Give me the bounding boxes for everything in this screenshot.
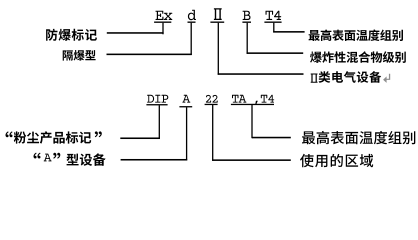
- leader vertical from A: [186, 107, 187, 160]
- leader vertical from 22: [212, 105, 213, 161]
- label closing quote of 粉尘产品标记: [95, 131, 102, 137]
- underline under 22: [205, 104, 218, 105]
- leader line to 爆炸性混合物级别: [247, 52, 304, 54]
- label 最高表面温度组别 bottom: [302, 131, 415, 144]
- leader vertical from B: [247, 23, 248, 54]
- underline under DIP: [146, 104, 167, 105]
- leader line to 隔爆型: [107, 54, 192, 56]
- marking text DIP: [147, 95, 168, 103]
- marking text A: [182, 95, 190, 103]
- underline under d: [188, 22, 196, 23]
- marking text TA ,T4: [232, 95, 274, 105]
- marking text T4: [266, 11, 282, 20]
- underline under Ex: [154, 22, 171, 23]
- leader vertical from T4: [273, 23, 274, 33]
- label 防爆标记: [46, 29, 97, 41]
- marking text Roman numeral II: [214, 8, 222, 20]
- underline under TA,T4: [231, 104, 274, 105]
- label II类电气设备 roman numeral: [311, 74, 318, 83]
- marking text d: [188, 10, 196, 20]
- label 使用的区域: [300, 154, 373, 167]
- label 爆炸性混合物级别: [310, 51, 406, 63]
- leader vertical from d: [191, 23, 192, 55]
- underline under B: [242, 22, 251, 23]
- paragraph return mark: [383, 74, 390, 83]
- leader line to 防爆标记: [107, 32, 164, 34]
- leader vertical from DIP: [159, 105, 160, 139]
- label letter A in quotes: [44, 154, 52, 162]
- marking text Ex: [156, 11, 173, 20]
- label opening quote of 粉尘产品标记: [6, 131, 13, 137]
- label opening quote of A型设备: [34, 153, 41, 159]
- leader line to 最高表面温度组别(top): [273, 31, 304, 33]
- label 隔爆型: [63, 50, 96, 61]
- leader line to II类电气设备: [218, 73, 304, 75]
- underline under A: [179, 106, 192, 107]
- label closing quote of A型设备: [53, 153, 60, 159]
- leader vertical from Ex: [162, 23, 163, 34]
- leader vertical from TA,T4: [251, 105, 252, 138]
- label 类电气设备: [319, 71, 382, 83]
- label 型设备: [67, 153, 106, 166]
- leader line to A型设备: [121, 159, 188, 161]
- label 最高表面温度组别 top: [309, 30, 403, 42]
- underline under T4: [264, 22, 281, 23]
- underline under II: [210, 22, 224, 23]
- marking text 22: [206, 95, 218, 103]
- leader vertical from II: [218, 23, 219, 75]
- label 粉尘产品标记: [14, 131, 91, 143]
- leader line to 最高表面温度组别(bottom): [252, 137, 291, 139]
- marking text B: [243, 11, 251, 20]
- explosion-proof marking explanation diagram: [0, 0, 418, 178]
- leader line to 粉尘产品标记: [120, 137, 160, 139]
- leader line to 使用的区域: [212, 159, 291, 161]
